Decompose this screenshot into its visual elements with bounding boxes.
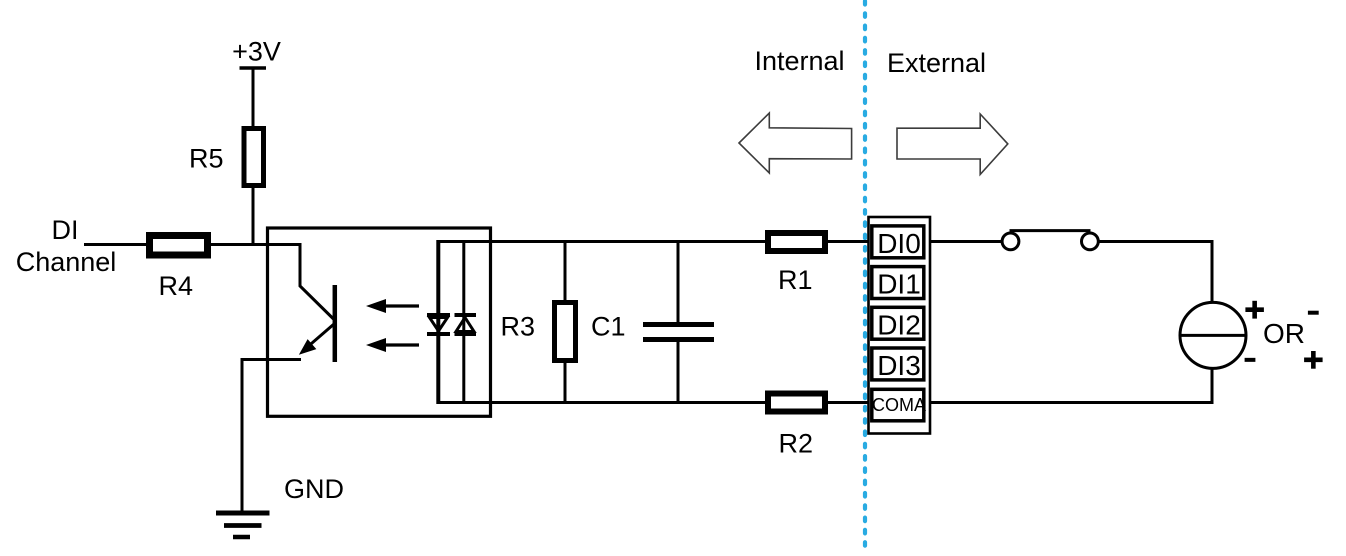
svg-text:R4: R4 [159,271,194,301]
svg-text:+3V: +3V [232,37,281,67]
svg-text:DI: DI [52,215,79,245]
svg-text:COMA: COMA [872,395,926,415]
svg-text:R5: R5 [189,144,224,174]
svg-text:DI0: DI0 [877,228,921,259]
svg-text:C1: C1 [591,312,626,342]
svg-text:GND: GND [284,474,344,504]
svg-text:R1: R1 [778,265,813,295]
svg-text:DI3: DI3 [877,350,921,381]
svg-text:R2: R2 [779,429,814,459]
svg-text:DI1: DI1 [877,269,921,300]
svg-text:External: External [887,48,986,78]
svg-text:Internal: Internal [755,46,845,76]
svg-text:OR: OR [1263,318,1305,349]
svg-text:DI2: DI2 [877,309,921,340]
svg-text:Channel: Channel [16,247,117,277]
svg-text:R3: R3 [501,312,536,342]
